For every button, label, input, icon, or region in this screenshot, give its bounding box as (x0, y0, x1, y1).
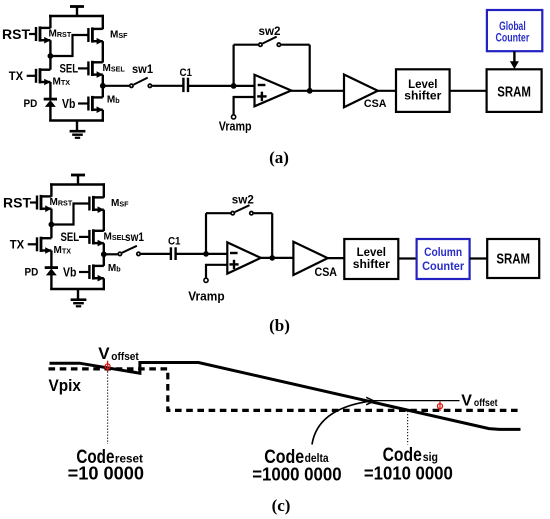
wire non-inverting input (234, 97, 255, 115)
wire level shifter to column counter (398, 257, 416, 259)
switch sw2 (231, 212, 234, 215)
wire pixel output to sw1 (103, 85, 129, 87)
block Global Counter (487, 10, 542, 51)
wire comparator output (260, 257, 294, 259)
wire comparator output (291, 90, 345, 92)
node comparator output (307, 88, 313, 94)
arrow global counter to SRAM (513, 51, 515, 62)
svg-text:sig: sig (423, 450, 438, 464)
svg-text:Counter: Counter (496, 32, 530, 45)
pixel circuit (a) (2, 7, 128, 138)
svg-text:C1: C1 (180, 67, 193, 79)
svg-text:sw2: sw2 (259, 24, 281, 38)
amplifier CSA (293, 242, 327, 275)
svg-text:=10 0000: =10 0000 (68, 464, 144, 484)
curved pointer Code delta (312, 401, 369, 444)
wire feedback top left (206, 212, 231, 214)
wire non-inverting input (206, 265, 228, 278)
wire sw1 to C1 (152, 85, 183, 87)
block Level shifter (344, 239, 398, 279)
wire feedback top left (234, 44, 259, 46)
capacitor C1 (182, 78, 184, 92)
op-amp comparator U1 (255, 75, 292, 107)
wire pixel output to sw1 (104, 253, 118, 255)
svg-text:offset: offset (111, 351, 139, 363)
svg-text:V: V (461, 393, 472, 410)
switch sw1 (130, 84, 133, 87)
svg-text:CSA: CSA (315, 267, 338, 279)
svg-text:SRAM: SRAM (497, 83, 531, 100)
capacitor C1 (170, 247, 172, 260)
amplifier CSA (344, 75, 378, 108)
svg-text:V: V (98, 344, 110, 363)
svg-text:sw2: sw2 (232, 192, 254, 206)
svg-text:shifter: shifter (404, 89, 441, 103)
wire CSA to level shifter (378, 90, 396, 92)
svg-text:Counter: Counter (422, 259, 464, 273)
svg-text:C1: C1 (168, 235, 181, 247)
svg-text:Vramp: Vramp (219, 120, 252, 134)
svg-text:offset: offset (474, 397, 498, 409)
svg-text:delta: delta (305, 451, 329, 465)
marker Voffset left (red) (105, 364, 110, 369)
svg-text:=1000 0000: =1000 0000 (252, 464, 341, 484)
wire feedback left vertical (205, 213, 207, 254)
wire column counter to SRAM (470, 257, 488, 259)
svg-text:=1010 0000: =1010 0000 (364, 463, 453, 483)
wire feedback right vertical (271, 213, 273, 258)
block Level shifter (396, 69, 450, 112)
switch sw2 (259, 43, 262, 46)
waveform Vpix solid (50, 363, 521, 430)
svg-text:sw1: sw1 (125, 230, 144, 244)
Vramp terminal (232, 115, 236, 119)
leader line Code sig (407, 411, 409, 445)
svg-text:sw1: sw1 (132, 62, 153, 76)
op-amp comparator U2 (227, 242, 260, 273)
node comparator inverting input (203, 251, 209, 257)
block SRAM (487, 239, 539, 278)
svg-text:Vpix: Vpix (49, 377, 82, 395)
wire feedback top right (254, 212, 273, 214)
wire feedback left vertical (233, 45, 235, 86)
svg-text:Vramp: Vramp (188, 288, 224, 303)
wire sw1 to C1 (141, 253, 171, 255)
svg-text:(a): (a) (269, 148, 289, 167)
node comparator inverting input (231, 83, 237, 89)
svg-text:SRAM: SRAM (496, 250, 530, 267)
wire C1 to comparator input (188, 85, 254, 87)
wire level shifter to SRAM (450, 90, 487, 92)
wire feedback top right (281, 44, 310, 46)
waveform Vpix dashed (reference) (49, 369, 521, 411)
leader line Code reset (107, 372, 109, 445)
marker Voffset right (red) (438, 404, 443, 409)
svg-text:shifter: shifter (353, 257, 390, 271)
Vramp terminal (204, 278, 208, 282)
wire C1 to comparator input (176, 253, 228, 255)
switch sw1 (118, 252, 121, 255)
node comparator output (269, 255, 275, 261)
wire CSA to level shifter (328, 257, 345, 259)
svg-text:CSA: CSA (364, 98, 387, 110)
svg-text:(c): (c) (272, 496, 291, 515)
svg-text:Column: Column (424, 245, 462, 259)
svg-text:(b): (b) (269, 316, 290, 335)
arrowhead on slope (366, 397, 374, 405)
block SRAM (487, 69, 542, 112)
block Column Counter (417, 239, 470, 279)
pixel circuit (b) (3, 175, 129, 306)
Voffset reference line right (370, 400, 460, 402)
wire feedback right vertical (309, 45, 311, 91)
